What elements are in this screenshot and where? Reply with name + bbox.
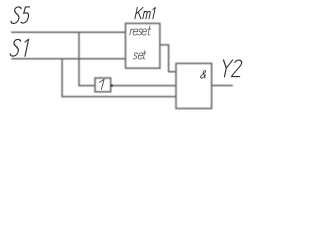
wire inverter output to AND input 2 — [111, 85, 176, 87]
inverter box — [95, 78, 111, 92]
box Km1 — [126, 23, 160, 68]
wire S5 horizontal to Km1 reset input — [11, 31, 125, 33]
wire branch from S1 down and bottom rail to AND input 3 — [62, 59, 176, 97]
label S1 — [10, 39, 29, 56]
wire S1 horizontal to Km1 set input — [11, 58, 125, 60]
label reset — [130, 26, 152, 35]
label Km1 — [135, 8, 155, 19]
wire Km1 output elbow to AND input 1 — [160, 45, 176, 72]
label 1 inside inverter — [98, 79, 105, 89]
wire branch from S5 down to inverter input — [79, 32, 95, 85]
label Y2 — [220, 60, 243, 77]
junction dot at inverter output — [110, 84, 113, 87]
label ampersand inside AND gate — [200, 71, 207, 79]
label set — [133, 50, 147, 59]
wire AND output to Y2 — [212, 85, 233, 87]
box AND gate — [176, 63, 212, 108]
label S5 — [11, 7, 31, 24]
